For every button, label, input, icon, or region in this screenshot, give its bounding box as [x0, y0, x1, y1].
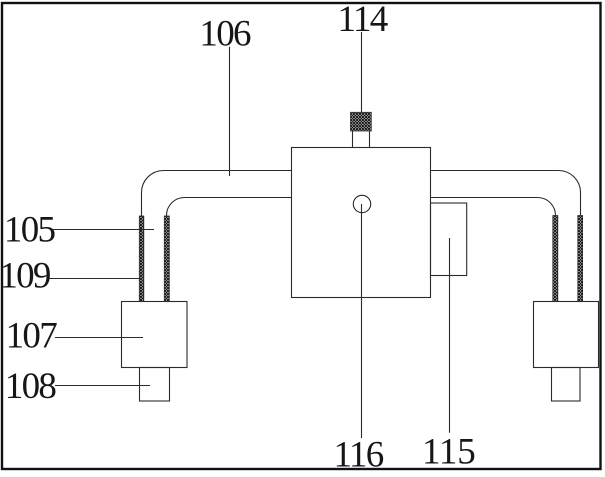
- svg-text:105: 105: [4, 210, 56, 251]
- svg-text:116: 116: [334, 435, 384, 476]
- svg-text:114: 114: [338, 0, 388, 40]
- svg-text:115: 115: [422, 431, 476, 472]
- svg-text:106: 106: [199, 14, 251, 55]
- svg-text:108: 108: [5, 366, 57, 407]
- svg-text:109: 109: [0, 256, 50, 297]
- svg-text:107: 107: [6, 316, 58, 357]
